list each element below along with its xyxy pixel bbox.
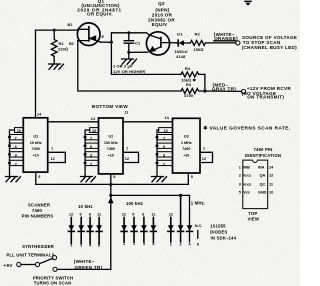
U3 pin 1-12 loop bbox=[200, 152, 213, 162]
label 7490 pin identification bbox=[245, 147, 281, 158]
100kHz terminal labels bbox=[123, 242, 155, 246]
wire C1 bottom to ground bbox=[128, 52, 130, 58]
wire switch to riser bbox=[57, 268, 111, 270]
ground below U1 bbox=[6, 177, 21, 182]
wire C1 bottom to Q2 emitter bbox=[129, 51, 148, 53]
capacitor C1 bbox=[124, 33, 133, 53]
label scanner pin numbers bbox=[22, 203, 54, 219]
ground below U3 bbox=[152, 177, 167, 182]
U3 pin 7 box bbox=[157, 135, 173, 140]
diode D 1MHz-1 bbox=[168, 218, 174, 242]
diode D 100kHz-1 bbox=[121, 218, 127, 243]
resistor R1 220 ohm bbox=[51, 30, 57, 63]
node C1 bottom bbox=[127, 51, 130, 54]
100kHz column pin labels bbox=[122, 212, 157, 216]
transistor Q1 unijunction bbox=[77, 23, 100, 46]
transistor Q2 npn bbox=[146, 32, 169, 55]
U3 pin 2 box bbox=[157, 160, 173, 165]
node R1 junction bbox=[53, 29, 56, 32]
wire E node down to R4 bbox=[111, 42, 181, 74]
diode D 1MHz-2 bbox=[178, 195, 184, 241]
U2 pin 2 box bbox=[85, 160, 98, 165]
U1 pin 1-12 loop bbox=[48, 152, 66, 162]
diode D1 1N914/4148 bbox=[178, 40, 190, 46]
switch S1 lower contact bbox=[53, 267, 57, 271]
U2 ground bus bbox=[85, 130, 90, 177]
U3 ground bus bbox=[157, 130, 159, 177]
node C1 top bbox=[127, 31, 130, 34]
wire junction to +12V terminal bbox=[205, 90, 241, 92]
resistor R3 4700 bbox=[181, 89, 205, 94]
DIP package outline bbox=[243, 160, 268, 209]
U3 pin 3 box bbox=[157, 152, 173, 157]
U2 pin 10 box bbox=[90, 128, 99, 133]
label Q1 title bbox=[77, 0, 121, 17]
terminal +12V bbox=[241, 89, 245, 93]
DIP row 1 bbox=[239, 165, 274, 169]
label synthesizer terminals bbox=[6, 244, 54, 258]
switch S1 pole bbox=[35, 262, 39, 266]
terminal stop-scan bbox=[236, 41, 240, 45]
wire U1 out to U2 pin 14 bbox=[48, 121, 99, 123]
label priority switch bbox=[33, 276, 74, 286]
label 1S1555 diodes bbox=[210, 224, 237, 241]
U1 pin 6 box bbox=[10, 143, 24, 148]
U3 pin 6 box bbox=[157, 143, 173, 148]
U2 pin 7 box bbox=[85, 135, 98, 140]
switch S1 upper contact bbox=[52, 256, 56, 260]
wire R4 to junction bbox=[204, 74, 206, 91]
label top view bbox=[248, 211, 260, 221]
arrowhead on riser bbox=[108, 197, 114, 203]
diode D 10kHz-3 bbox=[87, 218, 93, 244]
node 1MHz col2 bbox=[179, 194, 182, 197]
wire Q1 B2 down and right to R3 bbox=[78, 41, 181, 91]
node R3 R4 junction bbox=[203, 89, 206, 92]
label Q2 title bbox=[148, 1, 175, 27]
wire U2 out to U3 pin 14 bbox=[123, 121, 173, 123]
diode D 100kHz-4 bbox=[151, 218, 157, 243]
IC U3 7490 bbox=[173, 118, 201, 173]
IC U2 7490 bbox=[99, 118, 124, 174]
ground below C1 bbox=[122, 59, 137, 64]
wire diode bus to 1 MHz group bbox=[111, 195, 190, 241]
switch S1 arm bbox=[40, 258, 53, 263]
DIP row 4 bbox=[239, 191, 273, 195]
U2 pin 3 box bbox=[85, 152, 98, 157]
ground below U2 bbox=[81, 177, 96, 182]
wire Vcc pin5 rail bbox=[36, 183, 189, 185]
node rail at U2 pin 5 bbox=[109, 183, 112, 186]
node E junction bbox=[110, 41, 113, 44]
ground below R1 bbox=[49, 64, 64, 69]
terminal +9V bbox=[17, 262, 21, 266]
wire vertical from corner down to U1 pin 14 bbox=[35, 30, 37, 118]
diode D 100kHz-2 bbox=[131, 218, 137, 243]
wire B1 output from Q1 to corner bbox=[36, 29, 79, 31]
wire E node up and right to Q2 collector bbox=[100, 33, 149, 43]
DIP row 2 bbox=[239, 173, 273, 177]
diode D 10kHz-1 bbox=[68, 218, 74, 244]
10kHz terminal labels bbox=[70, 243, 101, 247]
wire +9V riser bbox=[110, 184, 112, 269]
IC U1 7490 bbox=[23, 118, 47, 172]
diode D 100kHz-3 bbox=[141, 218, 147, 243]
diode D 10kHz-4 bbox=[96, 218, 102, 244]
U1 pin 3 box bbox=[10, 152, 24, 157]
wire Q2 base to D1 bbox=[170, 42, 178, 44]
wire +9V to switch pole bbox=[21, 264, 35, 266]
node riser to diode bus bbox=[109, 194, 112, 197]
stub NC column bbox=[197, 231, 199, 239]
DIP row 3 bbox=[239, 183, 274, 187]
1MHz terminal labels bbox=[170, 242, 200, 246]
U1 ground bus bbox=[10, 130, 15, 177]
U2 pin 1-12 loop bbox=[123, 152, 139, 162]
U1 pin 2 box bbox=[10, 160, 24, 165]
U3 pin 10 box bbox=[159, 128, 173, 133]
U1 pin 10 box bbox=[15, 128, 24, 133]
resistor R2 150 ohm bbox=[190, 40, 235, 45]
10kHz column pin labels bbox=[69, 212, 102, 216]
antenna mark top right bbox=[244, 1, 251, 6]
diode D 10kHz-2 bbox=[78, 218, 84, 244]
U1 pin 7 box bbox=[10, 135, 24, 140]
U2 pin 6 box bbox=[85, 143, 98, 148]
resistor R4 10k bbox=[181, 72, 205, 77]
diode D 1MHz-3 bbox=[187, 225, 193, 231]
